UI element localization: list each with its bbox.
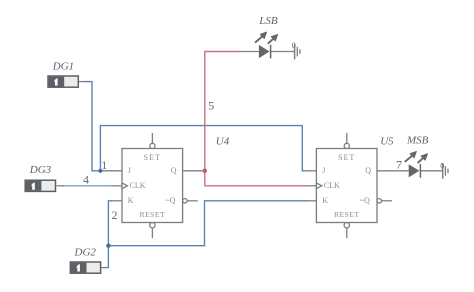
svg-text:5: 5	[208, 98, 214, 112]
svg-text:~Q: ~Q	[360, 196, 370, 205]
svg-text:SET: SET	[144, 153, 161, 162]
svg-text:MSB: MSB	[406, 134, 429, 146]
svg-text:K: K	[322, 196, 328, 205]
svg-text:~Q: ~Q	[165, 196, 175, 205]
svg-text:DG3: DG3	[29, 164, 52, 176]
svg-text:4: 4	[83, 173, 89, 187]
svg-text:Q: Q	[171, 166, 177, 175]
svg-text:7: 7	[396, 158, 402, 172]
svg-text:RESET: RESET	[140, 210, 166, 219]
svg-text:2: 2	[112, 208, 118, 222]
svg-text:SET: SET	[338, 153, 355, 162]
svg-text:J: J	[322, 166, 325, 175]
svg-text:0: 0	[440, 161, 444, 170]
svg-text:1: 1	[101, 158, 107, 172]
svg-text:RESET: RESET	[334, 210, 360, 219]
svg-text:0: 0	[292, 41, 296, 50]
svg-text:Q: Q	[365, 166, 371, 175]
svg-text:U5: U5	[380, 136, 394, 148]
svg-text:U4: U4	[216, 135, 230, 147]
svg-text:DG1: DG1	[52, 60, 74, 72]
svg-text:CLK: CLK	[324, 181, 340, 190]
svg-text:LSB: LSB	[258, 15, 278, 27]
svg-text:K: K	[128, 196, 134, 205]
svg-text:DG2: DG2	[74, 247, 97, 259]
svg-text:CLK: CLK	[130, 181, 146, 190]
svg-text:J: J	[128, 166, 131, 175]
